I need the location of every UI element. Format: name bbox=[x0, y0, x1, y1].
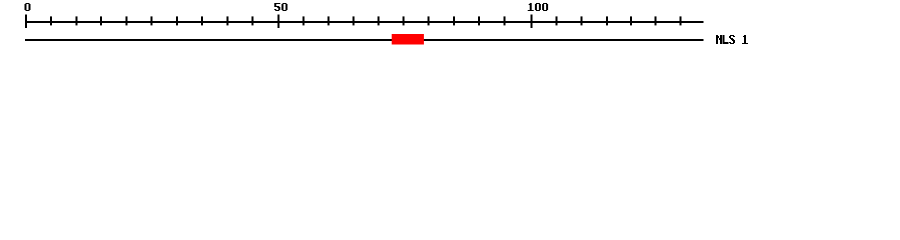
tick 105 bbox=[556, 16, 558, 25]
tick 70 bbox=[378, 16, 380, 25]
tick 15 bbox=[100, 16, 102, 25]
tick 20 bbox=[126, 16, 128, 25]
tick 125 bbox=[655, 16, 657, 25]
feature box NLS 1 (red) bbox=[392, 34, 424, 45]
tick 75 bbox=[403, 16, 405, 25]
tick 85 bbox=[453, 16, 455, 25]
tick 30 bbox=[176, 16, 178, 25]
tick 115 bbox=[606, 16, 608, 25]
ruler axis line bbox=[25, 21, 704, 23]
tick 45 bbox=[252, 16, 254, 25]
major tick 0 bbox=[25, 15, 27, 29]
tick 90 bbox=[478, 16, 480, 25]
tick 55 bbox=[303, 16, 305, 25]
tick 65 bbox=[353, 16, 355, 25]
tick 95 bbox=[504, 16, 506, 25]
ruler label 100 bbox=[528, 3, 548, 11]
tick 110 bbox=[581, 16, 583, 25]
ruler label 0 bbox=[25, 3, 31, 11]
tick 60 bbox=[328, 16, 330, 25]
tick 130 bbox=[680, 16, 682, 25]
major tick 50 bbox=[278, 15, 280, 29]
tick 10 bbox=[76, 16, 78, 25]
tick 5 bbox=[50, 16, 52, 25]
tick 80 bbox=[428, 16, 430, 25]
major tick 100 bbox=[531, 15, 533, 29]
ruler label 50 bbox=[274, 3, 287, 11]
tick 120 bbox=[630, 16, 632, 25]
tick 25 bbox=[151, 16, 153, 25]
tick 40 bbox=[227, 16, 229, 25]
sequence line bbox=[25, 39, 704, 41]
tick 35 bbox=[201, 16, 203, 25]
feature label NLS 1 bbox=[716, 35, 748, 44]
